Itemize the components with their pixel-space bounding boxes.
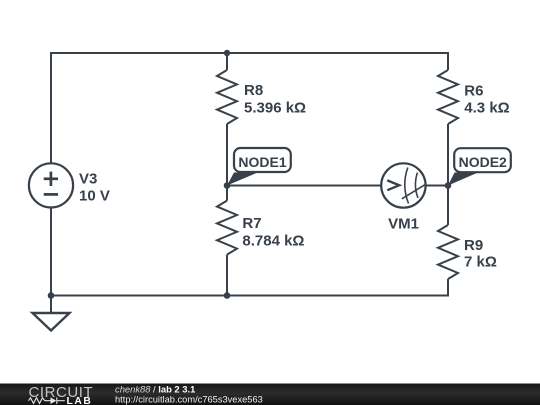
wire voltmeter to node2	[426, 185, 448, 187]
svg-text:http://circuitlab.com/c765s3ve: http://circuitlab.com/c765s3vexe563	[115, 394, 263, 404]
wire bottom-left horizontal segment	[51, 295, 227, 297]
svg-text:chenk88 / lab 2 3.1: chenk88 / lab 2 3.1	[115, 383, 195, 394]
wire top-right horizontal segment	[227, 53, 448, 70]
svg-text:R8: R8	[244, 82, 263, 99]
svg-text:V3: V3	[79, 171, 97, 188]
svg-text:LAB: LAB	[67, 396, 93, 405]
wire node1 to voltmeter	[227, 185, 381, 187]
resistor R6	[438, 70, 458, 186]
voltage source V3	[29, 163, 73, 207]
svg-text:VM1: VM1	[388, 216, 419, 233]
resistor R9	[438, 186, 458, 280]
junction dot bottom left	[48, 292, 55, 299]
svg-text:4.3 kΩ: 4.3 kΩ	[464, 99, 509, 116]
svg-text:10 V: 10 V	[79, 188, 110, 205]
junction dot top middle	[224, 50, 230, 56]
svg-text:7 kΩ: 7 kΩ	[464, 253, 497, 270]
svg-text:NODE1: NODE1	[238, 154, 286, 170]
svg-text:5.396 kΩ: 5.396 kΩ	[244, 100, 306, 117]
wire left vertical bottom	[50, 208, 52, 296]
svg-text:R9: R9	[464, 237, 483, 254]
ground	[33, 296, 70, 331]
node NODE1	[224, 148, 291, 189]
svg-text:8.784 kΩ: 8.784 kΩ	[242, 232, 304, 249]
svg-text:NODE2: NODE2	[459, 154, 507, 170]
CircuitLab logo resistor-diode glyph	[29, 397, 65, 404]
wire bottom-right horizontal segment	[227, 279, 448, 296]
voltmeter VM1	[381, 163, 425, 207]
node NODE2	[445, 148, 511, 189]
svg-text:R6: R6	[464, 82, 483, 99]
junction dot bottom middle	[224, 292, 231, 299]
svg-text:R7: R7	[242, 215, 261, 232]
wire top-left horizontal segment	[51, 53, 227, 164]
resistor R8	[217, 53, 237, 186]
resistor R7	[217, 186, 237, 296]
